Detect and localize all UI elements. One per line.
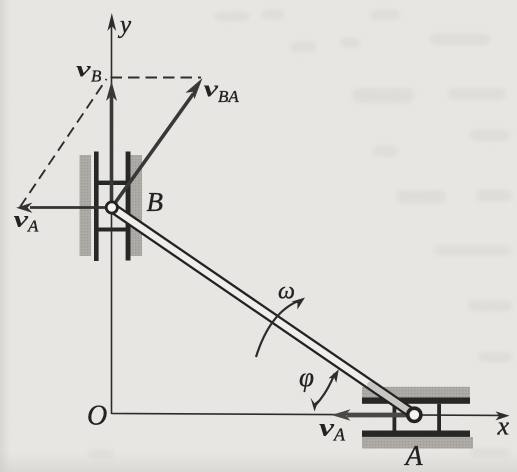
svg-text:B: B: [91, 67, 102, 86]
phi angle arc: [315, 374, 335, 407]
vector vB arrow: [110, 97, 114, 207]
slider guide A: top gray band: [362, 387, 470, 398]
omega rotation arc: [256, 301, 300, 358]
svg-text:φ: φ: [299, 362, 314, 392]
svg-text:v: v: [14, 207, 29, 233]
vector vA arrow at B: [30, 206, 112, 209]
phi arc arrowhead at rod: [329, 369, 339, 383]
svg-text:O: O: [87, 401, 107, 432]
bleed-through smudge 2: [372, 145, 398, 157]
svg-text:v: v: [76, 57, 92, 82]
bleed-through smudge 1: [215, 10, 512, 362]
svg-text:v: v: [204, 77, 219, 103]
slider block B top bar: [94, 181, 131, 185]
svg-text:y: y: [117, 12, 132, 39]
edge vignette: [0, 0, 10, 472]
svg-text:v: v: [319, 415, 335, 442]
svg-text:x: x: [497, 412, 510, 441]
svg-text:ω: ω: [278, 279, 295, 305]
svg-text:A: A: [404, 441, 424, 472]
rod AB fill: [112, 208, 415, 415]
slider guide B: left gray band: [80, 155, 92, 256]
slider guide B: right rail: [126, 152, 131, 261]
pin B: [106, 202, 117, 213]
rod AB outline: [112, 208, 415, 415]
slider guide B: right gray band: [131, 155, 143, 256]
slider guide A: bottom gray band: [362, 437, 473, 449]
svg-text:B: B: [147, 187, 164, 217]
x-axis: [112, 414, 501, 416]
svg-text:BA: BA: [218, 87, 239, 106]
svg-text:A: A: [27, 217, 39, 236]
vector vBA arrow: [112, 94, 194, 208]
dashed construction line: vA tip to vB tip: [20, 79, 107, 207]
x-axis arrowhead: [496, 411, 510, 420]
slider guide A: bottom rail: [362, 431, 470, 437]
svg-text:A: A: [333, 425, 346, 445]
dashed construction line: vB tip to vBA tip: [111, 77, 202, 79]
slider guide B: left rail: [94, 152, 99, 262]
slider block B bottom bar: [94, 228, 131, 232]
slider guide A: top rail: [362, 397, 470, 403]
slider block A right bar: [437, 404, 441, 431]
rod AB shading near A: [370, 385, 412, 414]
vector vA arrow at A: [347, 413, 407, 418]
bleed-through smudge 3: [396, 190, 446, 204]
y-axis arrowhead: [107, 13, 116, 31]
slider block A left bar: [393, 404, 397, 431]
phi arc arrowhead at axis: [311, 398, 319, 412]
bleed-through smudge 4: [88, 245, 512, 459]
y-axis: [111, 24, 113, 414]
pin A: [408, 408, 421, 421]
